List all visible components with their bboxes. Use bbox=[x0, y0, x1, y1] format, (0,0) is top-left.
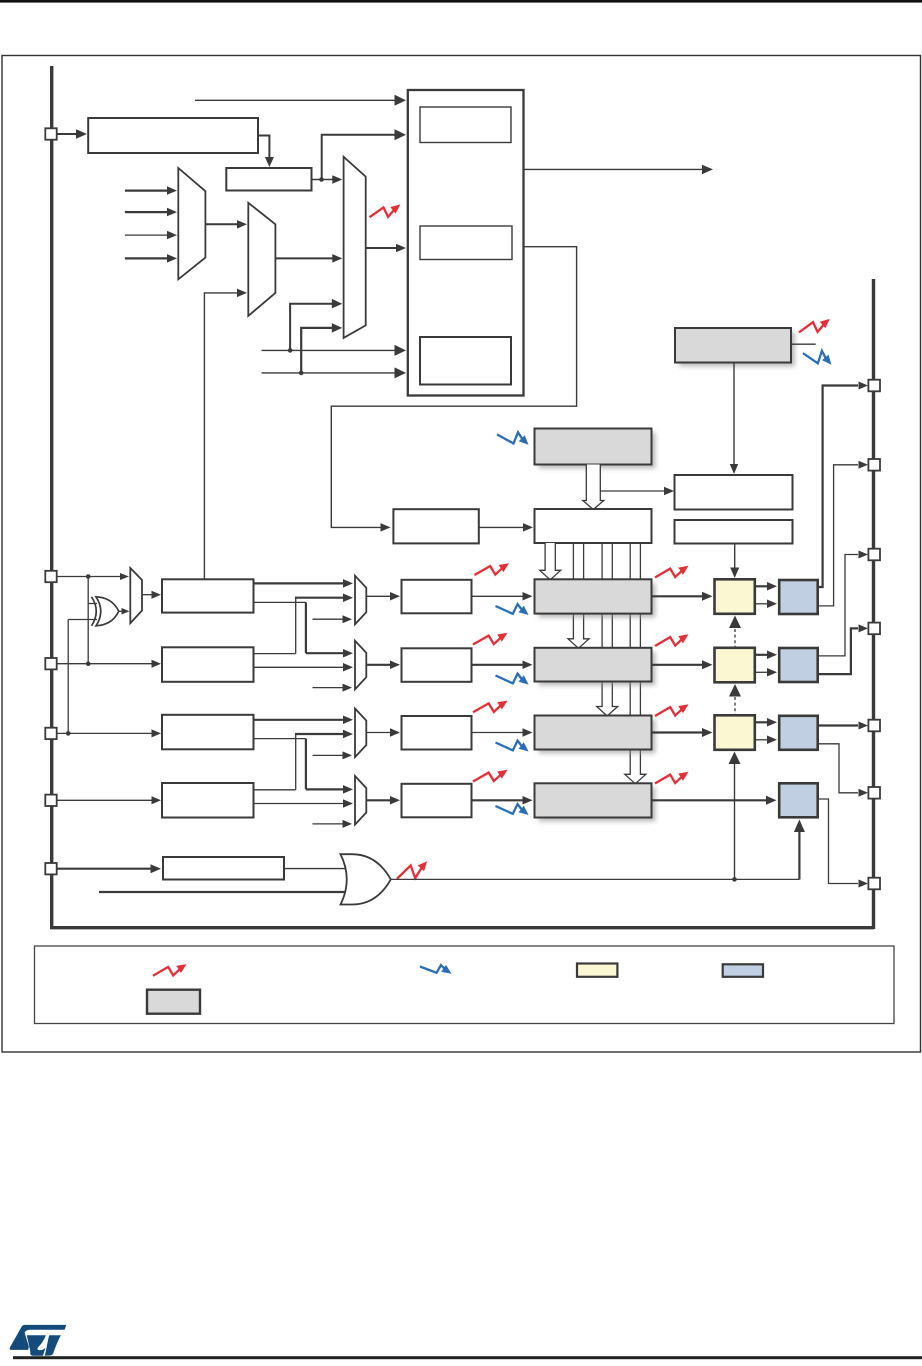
capture/compare register gray box 3 bbox=[535, 716, 656, 754]
output stage blue box 2 bbox=[779, 648, 818, 682]
wire IC4 mux to prescaler bbox=[366, 796, 400, 805]
wire CH1-CH2 vertical bbox=[87, 577, 89, 664]
IC1 prescaler box bbox=[402, 580, 472, 614]
red event arrow row1 right bbox=[655, 566, 689, 578]
wire encoder box down to repetition box bbox=[730, 363, 738, 475]
input filter box CH3 bbox=[162, 715, 254, 750]
pin square CH3 bbox=[45, 728, 56, 739]
wire junction up to trigger controller bbox=[322, 129, 406, 179]
ST logo bbox=[10, 1325, 67, 1356]
wire riser to TRGI mux in4 bbox=[301, 323, 342, 373]
red event arrow row2 right bbox=[655, 634, 689, 646]
wire capture register to compare 2 bbox=[652, 660, 713, 669]
legend gray reg box bbox=[147, 990, 200, 1014]
blue interrupt arrow at autoreload bbox=[497, 432, 529, 445]
wire TI1 mux out to input filter 1 bbox=[142, 591, 161, 599]
output stage blue box 4 bbox=[779, 783, 818, 817]
wire OC3 to output stage lower bbox=[755, 736, 777, 745]
auto-reload register gray box bbox=[535, 429, 656, 469]
dashed wire OC3 to OC2 bbox=[729, 684, 741, 715]
mux ITR select bbox=[178, 168, 205, 279]
compare yellow box OC2 bbox=[715, 648, 755, 683]
wire CH4 pin to input filter 4 bbox=[57, 796, 161, 804]
legend blue interrupt arrow bbox=[420, 965, 452, 974]
wire CH3 pin to input filter 3 bbox=[57, 729, 161, 737]
wire XOR input 1 bbox=[88, 603, 97, 605]
red event arrow row4 right bbox=[655, 772, 689, 784]
OR gate brake bbox=[341, 854, 391, 904]
IC3 prescaler box bbox=[402, 716, 472, 750]
wire prescaler to capture register 1 bbox=[472, 592, 533, 601]
blue interrupt arrow row4 bbox=[496, 804, 529, 815]
wire TI4FP3 up to IC3 mux bbox=[254, 730, 354, 790]
encoder interface gray box bbox=[675, 328, 795, 367]
node junction riser4 bbox=[299, 371, 304, 376]
blue interrupt arrow row2 bbox=[496, 674, 529, 685]
blue interrupt arrow at encoder box bbox=[803, 351, 831, 365]
wire ETR box to OR gate bbox=[284, 868, 348, 870]
capture/compare register gray box 4 bbox=[535, 783, 656, 821]
wire ITR2 bbox=[125, 231, 177, 240]
wire ITR3 bbox=[125, 254, 177, 263]
wire TI2FP2 to IC2 mux bbox=[254, 663, 354, 672]
node ETRF junction bbox=[732, 877, 737, 882]
mux IC2 selection bbox=[355, 641, 366, 690]
red event arrow at OR gate bbox=[397, 861, 427, 879]
wire IC1 mux to prescaler bbox=[366, 592, 400, 601]
page top rule bbox=[0, 0, 922, 3]
wire ITR1 bbox=[125, 208, 177, 217]
wire TI4FP4 to IC4 mux bbox=[254, 799, 354, 808]
wire TI2FP1 up to IC1 mux bbox=[254, 594, 354, 654]
wire stub right of encoder box bbox=[792, 343, 816, 345]
dashed wire OC2 to OC1 bbox=[729, 616, 741, 648]
wire PSC to CNT bbox=[479, 523, 533, 532]
trigger controller sub-box 1 bbox=[420, 107, 511, 143]
wire TRGO out bbox=[524, 165, 714, 175]
wire OC2 to output stage upper bbox=[755, 651, 777, 660]
mux TRGI bbox=[344, 157, 366, 338]
wire OC1 to CH1 pin bbox=[818, 382, 868, 588]
wire XOR input 2 bbox=[68, 619, 97, 621]
wire CH3 vertical to XOR bbox=[67, 620, 69, 734]
node CH3 junction bbox=[66, 731, 71, 736]
capture/compare register gray box 2 bbox=[535, 648, 656, 686]
wire OR out ETRF line bbox=[391, 878, 800, 880]
wire slave box to TRGI mux bbox=[312, 175, 343, 184]
wire ETR pin to polarity box bbox=[57, 864, 161, 873]
pin square CH2 bbox=[45, 658, 56, 669]
compare yellow box OC1 bbox=[715, 579, 755, 614]
wire OC4 to CH4 pin bbox=[818, 799, 868, 888]
blue interrupt arrow row1 bbox=[496, 604, 529, 615]
wire riser to TRGI mux in3 bbox=[290, 299, 342, 351]
hollow arrow ARR to CNT bbox=[583, 465, 604, 510]
mux TI1 selection bbox=[130, 568, 142, 623]
wire capture register to compare 3 bbox=[652, 728, 713, 737]
legend frame bbox=[35, 946, 895, 1024]
node CH2 junction bbox=[86, 661, 91, 666]
capture/compare register gray box 1 bbox=[535, 579, 656, 617]
prescaler PSC box bbox=[393, 509, 478, 543]
wire prescaler to capture register 3 bbox=[472, 728, 533, 737]
IC4 prescaler box bbox=[402, 784, 472, 818]
red event arrow at encoder box bbox=[799, 319, 830, 332]
wire CH1 pin to TI1 mux bbox=[57, 573, 129, 580]
wire ETRF up to output stage 4 bbox=[794, 820, 805, 880]
red event arrow row1 left bbox=[475, 563, 510, 575]
pin square out 7 bbox=[868, 878, 880, 890]
wire OC1 to output stage upper bbox=[755, 582, 777, 591]
mux IC4 selection bbox=[355, 776, 366, 825]
repetition register box bbox=[675, 475, 793, 510]
output stage blue box 1 bbox=[779, 580, 818, 614]
wire ITR mux out bbox=[205, 220, 247, 229]
wire pin to clock box bbox=[57, 129, 87, 139]
left rail (TIMx pins bus) bbox=[50, 66, 874, 929]
red event arrow row3 right bbox=[655, 704, 689, 716]
repetition sub box bbox=[675, 520, 793, 544]
wire OC1 to output stage lower bbox=[755, 600, 777, 609]
trigger controller box bbox=[408, 90, 524, 396]
wire TI1FP1 to IC1 mux bbox=[254, 579, 354, 588]
legend red event arrow bbox=[153, 964, 187, 976]
pin square out 3 bbox=[868, 549, 880, 561]
wire TRC stub IC4 bbox=[313, 820, 353, 828]
legend blue box bbox=[723, 964, 763, 977]
wire OC2 to CH2 pin bbox=[818, 551, 868, 656]
wire IC2 mux to prescaler bbox=[366, 661, 400, 670]
node junction bbox=[319, 177, 324, 182]
wire OC3 to CH3 pin bbox=[818, 722, 868, 730]
hollow arrows CNT to capture/compare registers bbox=[540, 543, 646, 784]
pin square out 1 bbox=[868, 380, 880, 392]
pin square CH1 bbox=[45, 571, 56, 582]
blue interrupt arrow row3 bbox=[496, 741, 529, 752]
counter CNT box bbox=[535, 509, 652, 543]
red event arrow row2 left bbox=[473, 633, 508, 645]
wire shaft to repetition register box bbox=[600, 487, 674, 495]
wire TRC stub IC3 bbox=[313, 751, 353, 759]
input filter box CH1 bbox=[162, 579, 254, 612]
wire TI1F_ED up from input filter bbox=[204, 289, 247, 579]
wire TI2FP line to trigger controller bbox=[262, 367, 407, 378]
input filter box CH4 bbox=[162, 783, 254, 818]
pin square out 6 bbox=[868, 787, 880, 799]
node CK pin square bbox=[45, 128, 56, 139]
slave mode box bbox=[226, 168, 311, 191]
red event arrow at TRGI mux bbox=[370, 204, 401, 217]
trigger controller sub-box 2 bbox=[420, 226, 512, 260]
wire ETRF up to OC3 bbox=[729, 752, 741, 880]
wire OC3N to CH3N pin bbox=[818, 744, 868, 797]
trigger controller sub-box 3 bbox=[420, 337, 511, 385]
XOR gate bbox=[92, 597, 119, 626]
wire CH2 pin to input filter 2 bbox=[57, 660, 161, 668]
figure frame bbox=[2, 56, 921, 1053]
pin square CH4 bbox=[45, 795, 56, 806]
clock box bbox=[88, 118, 258, 153]
red event arrow row4 left bbox=[473, 770, 508, 782]
pin square out 5 bbox=[868, 720, 880, 732]
wire capture register to compare 1 bbox=[652, 592, 713, 601]
pin square ETR bbox=[45, 863, 56, 874]
wire OC2 to output stage lower bbox=[755, 668, 777, 677]
ETR polarity selection box bbox=[163, 857, 284, 880]
mux trigger select bbox=[248, 203, 275, 316]
wire TRGI mux out to trigger controller bbox=[366, 244, 406, 252]
pin square out 2 bbox=[868, 459, 880, 471]
wire BRK line to OR gate bbox=[99, 891, 352, 893]
wire clock box to slave box bbox=[258, 136, 274, 168]
pin square out 4 bbox=[868, 623, 880, 635]
wire OC2N to CH2N pin bbox=[818, 624, 868, 674]
output stage blue box 3 bbox=[779, 716, 818, 750]
wire XOR out to TI1 mux bbox=[118, 608, 129, 615]
mux IC1 selection bbox=[355, 576, 366, 625]
wire repetition sub box to OC1 bbox=[730, 544, 739, 579]
wire OC1N to CH1N pin bbox=[818, 461, 868, 606]
wire TI1FP2 down to IC2 mux bbox=[254, 602, 354, 657]
wire TRC stub IC2 bbox=[313, 684, 353, 692]
node CH1 junction bbox=[86, 574, 91, 579]
wire trigger mux out to TRGI mux bbox=[275, 254, 342, 263]
wire OC3 to output stage upper bbox=[755, 718, 777, 727]
wire ITR0 bbox=[125, 186, 177, 195]
IC2 prescaler box bbox=[402, 648, 472, 682]
wire top long line to trigger controller bbox=[195, 95, 406, 106]
node junction riser3 bbox=[288, 348, 293, 353]
mux IC3 selection bbox=[355, 709, 366, 758]
wire CK_PSC wrap to prescaler bbox=[331, 247, 576, 532]
wire TI1FP line to trigger controller bbox=[262, 345, 407, 356]
footer rule bbox=[13, 1356, 922, 1359]
red event arrow row3 left bbox=[473, 701, 508, 713]
wire prescaler to capture register 4 bbox=[472, 796, 533, 805]
wire capture register 4 to output stage 4 bbox=[652, 796, 777, 805]
compare yellow box OC3 bbox=[715, 715, 755, 750]
wire IC3 mux to prescaler bbox=[366, 728, 400, 737]
wire prescaler to capture register 2 bbox=[472, 661, 533, 670]
wire TRC stub IC1 bbox=[313, 615, 353, 623]
input filter box CH2 bbox=[162, 647, 254, 682]
wire TI3FP3 to IC3 mux bbox=[254, 716, 354, 725]
legend yellow box bbox=[577, 964, 617, 977]
wire TI3FP4 down to IC4 mux bbox=[254, 739, 354, 794]
